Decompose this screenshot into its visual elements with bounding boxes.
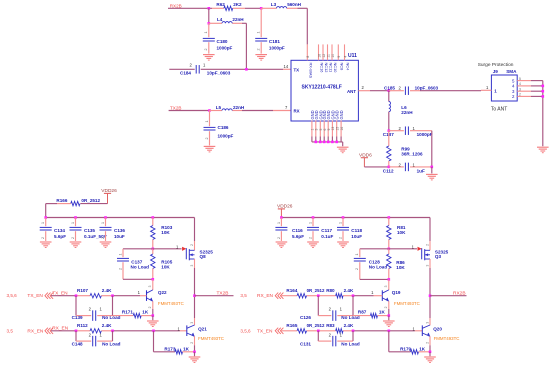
svg-text:TX: TX bbox=[294, 67, 300, 72]
svg-text:2: 2 bbox=[148, 306, 152, 308]
svg-text:3: 3 bbox=[425, 322, 429, 324]
ground Q22 bbox=[147, 316, 159, 327]
wire C128 return bbox=[360, 278, 389, 280]
svg-text:1K: 1K bbox=[419, 346, 426, 351]
node TX line junction bbox=[245, 68, 248, 71]
svg-text:C118: C118 bbox=[351, 228, 362, 233]
svg-text:2.4K: 2.4K bbox=[344, 323, 354, 328]
J9 pin 1 bbox=[481, 85, 497, 93]
wire to R173 bbox=[154, 331, 176, 352]
resistor R107 2.4K bbox=[77, 288, 112, 298]
svg-text:TX_EN: TX_EN bbox=[257, 328, 273, 334]
node RX_EN junction b right bbox=[352, 294, 355, 297]
svg-text:1: 1 bbox=[41, 222, 45, 224]
wire Q19 collector bbox=[384, 279, 389, 290]
svg-text:15: 15 bbox=[336, 127, 340, 131]
svg-text:No Load: No Load bbox=[102, 341, 121, 346]
node RX2B junction bbox=[208, 7, 211, 10]
ground U11 bus bbox=[337, 142, 349, 153]
pin 14 label bbox=[284, 64, 289, 69]
capacitor C112 1uF bbox=[383, 162, 432, 173]
svg-text:Q22: Q22 bbox=[158, 290, 167, 295]
svg-text:1: 1 bbox=[308, 222, 312, 224]
resistor R83 2.4K bbox=[326, 323, 354, 333]
svg-text:2: 2 bbox=[190, 62, 193, 67]
svg-text:2: 2 bbox=[308, 237, 312, 239]
net label RX2B out bbox=[453, 291, 466, 297]
wire J9 shield vertical bbox=[542, 81, 544, 147]
svg-text:4: 4 bbox=[512, 84, 515, 89]
svg-text:22nH: 22nH bbox=[232, 17, 244, 22]
inductor L4 22nH bbox=[209, 17, 245, 23]
svg-text:FMMT493TC: FMMT493TC bbox=[434, 336, 460, 341]
svg-text:1: 1 bbox=[338, 222, 342, 224]
node Q21 emitter junction bbox=[193, 351, 196, 354]
svg-text:2: 2 bbox=[384, 306, 388, 308]
svg-text:1: 1 bbox=[486, 85, 489, 90]
svg-text:C134: C134 bbox=[54, 228, 65, 233]
svg-text:GND: GND bbox=[339, 110, 344, 119]
svg-text:16: 16 bbox=[317, 54, 321, 58]
power VDD26 right bbox=[277, 204, 293, 218]
svg-text:L5: L5 bbox=[216, 105, 222, 110]
pin 7 label bbox=[285, 105, 288, 110]
svg-text:2: 2 bbox=[519, 93, 521, 97]
transistor Q19 FMMT493TC bbox=[382, 290, 419, 306]
svg-text:SMA: SMA bbox=[506, 69, 517, 74]
ground Q19 bbox=[383, 316, 395, 327]
svg-text:FMMT493TC: FMMT493TC bbox=[198, 336, 224, 341]
node TX_EN junction a bbox=[75, 294, 78, 297]
svg-text:3: 3 bbox=[148, 285, 152, 287]
U11 ANT pin stub bbox=[358, 85, 370, 91]
svg-text:0R_2512: 0R_2512 bbox=[307, 288, 325, 293]
svg-text:C181: C181 bbox=[269, 39, 280, 44]
svg-text:R165: R165 bbox=[286, 323, 297, 328]
svg-text:R166: R166 bbox=[56, 198, 67, 203]
capacitor C116 5.6pF bbox=[275, 218, 304, 242]
svg-text:NC4: NC4 bbox=[346, 63, 351, 72]
svg-text:C116: C116 bbox=[292, 228, 303, 233]
svg-text:2: 2 bbox=[257, 49, 261, 51]
svg-text:C117: C117 bbox=[321, 228, 332, 233]
text Surge Protection bbox=[478, 62, 514, 68]
ground Q21 bbox=[189, 352, 201, 363]
svg-text:ANT: ANT bbox=[347, 89, 356, 94]
node L5 junction bbox=[208, 109, 211, 112]
capacitor C180 1000pF bbox=[203, 23, 233, 53]
svg-text:1: 1 bbox=[257, 32, 261, 34]
svg-text:3,5,6: 3,5,6 bbox=[240, 328, 251, 333]
capacitor C131 No Load bbox=[300, 331, 360, 347]
svg-text:2: 2 bbox=[425, 342, 429, 344]
wire L5 to RX pin bbox=[242, 110, 291, 112]
wire R166 to bus bbox=[45, 204, 47, 218]
wire Q20 emitter bbox=[425, 336, 430, 352]
svg-text:7: 7 bbox=[285, 105, 288, 110]
node R103 gate junction bbox=[152, 248, 155, 251]
wire Q22 collector bbox=[148, 279, 153, 290]
svg-text:1K: 1K bbox=[183, 346, 190, 351]
ground C116 bbox=[276, 242, 288, 248]
svg-text:16: 16 bbox=[340, 127, 344, 131]
node ANT junction bbox=[388, 89, 391, 92]
pin 1 Q22 base bbox=[138, 290, 141, 295]
resistor R81 10K bbox=[387, 218, 407, 249]
node C181 junction bbox=[260, 7, 263, 10]
inductor L6 22nH bbox=[389, 91, 413, 131]
connector J9 SMA box bbox=[491, 69, 517, 101]
svg-text:NC8: NC8 bbox=[339, 63, 344, 71]
U11 pin RX bbox=[294, 109, 300, 114]
net label TX2B top bbox=[170, 105, 182, 110]
wire bus to Q3 drain bbox=[425, 218, 430, 251]
svg-text:C180: C180 bbox=[217, 39, 228, 44]
pin 1 Q20 base bbox=[413, 327, 416, 332]
transistor Q22 FMMT493TC bbox=[147, 290, 184, 306]
power VDD6 bbox=[359, 153, 372, 167]
svg-text:RX: RX bbox=[294, 109, 300, 114]
pin 1 Q21 base bbox=[178, 327, 181, 332]
svg-text:3: 3 bbox=[315, 129, 319, 131]
node L4 junction bbox=[208, 22, 211, 25]
svg-text:Q21: Q21 bbox=[198, 327, 207, 332]
capacitor C135 0.1uF_50V bbox=[70, 218, 108, 242]
capacitor C185 10pF_0603 bbox=[384, 85, 439, 95]
svg-text:TX2B: TX2B bbox=[217, 291, 229, 297]
svg-text:10K: 10K bbox=[161, 264, 170, 269]
wire TX_EN row right bbox=[281, 330, 422, 332]
wire Q3 source bbox=[425, 259, 430, 296]
svg-text:1: 1 bbox=[355, 254, 359, 256]
capacitor C117 0.1uF bbox=[307, 218, 333, 242]
svg-text:3: 3 bbox=[384, 285, 388, 287]
capacitor C181 1000pF bbox=[255, 8, 285, 53]
svg-text:C184: C184 bbox=[180, 70, 191, 75]
svg-text:10uF: 10uF bbox=[114, 234, 125, 239]
U11 pin TX bbox=[294, 67, 300, 72]
svg-text:11: 11 bbox=[326, 54, 330, 58]
ground C112 bbox=[426, 167, 438, 180]
svg-text:R164: R164 bbox=[286, 288, 297, 293]
node bus junctions left bbox=[44, 216, 154, 219]
svg-text:1000pF: 1000pF bbox=[269, 46, 285, 51]
wire Q8 source bbox=[190, 259, 195, 296]
node Q22 emitter junction bbox=[152, 314, 155, 317]
net label RX_EN bbox=[52, 325, 69, 331]
svg-text:5.6pF: 5.6pF bbox=[292, 234, 304, 239]
svg-text:1uF: 1uF bbox=[417, 168, 425, 173]
svg-text:NC10: NC10 bbox=[333, 63, 338, 74]
ground C180 bbox=[203, 55, 215, 61]
wire Q22 emitter bbox=[148, 301, 153, 315]
svg-text:NC12: NC12 bbox=[324, 63, 329, 73]
ground Q20 bbox=[424, 352, 436, 363]
ground C118 bbox=[337, 242, 349, 248]
wire Q21 collector bbox=[190, 296, 195, 326]
resistor R103 10K bbox=[151, 218, 173, 249]
svg-text:0R_2512: 0R_2512 bbox=[307, 323, 325, 328]
svg-text:36R_1206: 36R_1206 bbox=[401, 151, 423, 156]
svg-text:5: 5 bbox=[512, 78, 515, 83]
resistor R165 0R_2512 bbox=[286, 323, 325, 333]
svg-text:C136: C136 bbox=[114, 228, 125, 233]
svg-text:560nH: 560nH bbox=[287, 2, 301, 7]
svg-text:L4: L4 bbox=[217, 17, 223, 22]
text To ANT bbox=[491, 107, 507, 113]
svg-text:4: 4 bbox=[519, 82, 521, 86]
node Q20 emitter junction bbox=[429, 351, 432, 354]
node RX_EN junction a bbox=[75, 330, 78, 333]
svg-text:2.4K: 2.4K bbox=[102, 288, 112, 293]
wire TX2B out bbox=[195, 295, 234, 297]
wire C185 to J9 bbox=[420, 90, 481, 92]
svg-text:1: 1 bbox=[277, 222, 281, 224]
svg-text:1000pF: 1000pF bbox=[217, 46, 233, 51]
wire to R179 bbox=[389, 331, 411, 352]
svg-text:U11: U11 bbox=[348, 53, 357, 59]
svg-text:1: 1 bbox=[203, 62, 206, 67]
svg-text:14: 14 bbox=[284, 64, 289, 69]
resistor R171 1K bbox=[113, 310, 153, 318]
J9 right pins bbox=[512, 77, 543, 99]
transistor Q21 FMMT493TC bbox=[187, 325, 224, 341]
power VDD26 left bbox=[101, 188, 117, 203]
svg-text:10: 10 bbox=[331, 54, 335, 58]
wire U11 ground bus bbox=[312, 141, 343, 143]
resistor R86 10K bbox=[387, 249, 406, 280]
wire RX2B out bbox=[430, 295, 467, 297]
svg-text:TX2B: TX2B bbox=[170, 105, 182, 110]
svg-text:12: 12 bbox=[322, 54, 326, 58]
svg-text:R171: R171 bbox=[122, 310, 133, 315]
svg-text:2: 2 bbox=[512, 94, 515, 99]
svg-text:R107: R107 bbox=[77, 288, 88, 293]
svg-text:2: 2 bbox=[425, 244, 429, 246]
svg-text:R112: R112 bbox=[77, 323, 88, 328]
node RX_EN junction a right bbox=[317, 294, 320, 297]
svg-text:1000pF: 1000pF bbox=[417, 132, 433, 137]
capacitor C134 5.6pF bbox=[40, 218, 66, 242]
node R105 bottom junction bbox=[152, 278, 155, 281]
svg-text:R179: R179 bbox=[400, 346, 411, 351]
svg-text:L3: L3 bbox=[271, 2, 277, 7]
svg-text:4: 4 bbox=[343, 56, 347, 58]
svg-text:3: 3 bbox=[519, 87, 521, 91]
svg-text:R62: R62 bbox=[216, 2, 225, 7]
svg-text:1: 1 bbox=[494, 88, 497, 93]
svg-text:C135: C135 bbox=[84, 228, 95, 233]
IC U11 box bbox=[291, 53, 358, 121]
svg-text:1: 1 bbox=[100, 332, 103, 337]
svg-text:Q8: Q8 bbox=[200, 254, 207, 259]
svg-text:RX-BIAS: RX-BIAS bbox=[308, 63, 313, 79]
wire C137 return bbox=[123, 278, 153, 280]
port RX_EN left bbox=[7, 328, 54, 335]
svg-text:5.6pF: 5.6pF bbox=[54, 234, 66, 239]
wire C187 right drop bbox=[431, 131, 433, 167]
capacitor C187 1000pF bbox=[383, 126, 433, 137]
svg-text:0.1uF: 0.1uF bbox=[321, 234, 333, 239]
node TX_EN junction a right bbox=[317, 330, 320, 333]
resistor R112 2.4K bbox=[77, 323, 112, 333]
svg-text:Surge Protection: Surge Protection bbox=[478, 62, 514, 68]
svg-text:R87: R87 bbox=[358, 310, 367, 315]
ground C186 bbox=[204, 146, 216, 152]
svg-text:3,5,6: 3,5,6 bbox=[7, 293, 18, 298]
svg-text:3: 3 bbox=[190, 265, 194, 267]
ground C136 bbox=[100, 242, 112, 248]
ground C117 bbox=[307, 242, 319, 248]
svg-text:0R_2512: 0R_2512 bbox=[81, 198, 100, 203]
capacitor C126 No Load bbox=[300, 296, 360, 321]
svg-text:R83: R83 bbox=[326, 323, 335, 328]
svg-text:2: 2 bbox=[71, 237, 75, 239]
resistor R105 10K bbox=[151, 249, 173, 279]
svg-text:2: 2 bbox=[399, 85, 402, 90]
svg-text:J9: J9 bbox=[493, 69, 499, 74]
svg-text:C185: C185 bbox=[384, 85, 395, 90]
svg-text:1: 1 bbox=[340, 307, 343, 312]
svg-text:To ANT: To ANT bbox=[491, 107, 507, 113]
net label TX_EN bbox=[52, 290, 68, 296]
wire bus to Q8 drain bbox=[190, 218, 195, 251]
resistor R166 0R_2512 bbox=[46, 198, 108, 206]
transistor Q3 S2325 bbox=[418, 247, 449, 261]
svg-text:3: 3 bbox=[425, 265, 429, 267]
wire TX2B run bbox=[169, 110, 210, 112]
svg-text:Q3: Q3 bbox=[435, 254, 442, 259]
capacitor C137 No Load bbox=[117, 249, 153, 279]
U11 pin ANT bbox=[347, 89, 356, 94]
wire L3 to RX-BIAS bbox=[298, 8, 308, 44]
svg-text:3,5: 3,5 bbox=[240, 293, 247, 298]
svg-text:22nH: 22nH bbox=[401, 110, 413, 115]
wire C184 to TX pin bbox=[201, 68, 291, 70]
svg-text:1: 1 bbox=[371, 290, 374, 295]
capacitor C186 1000pF bbox=[204, 111, 234, 146]
svg-text:5: 5 bbox=[519, 77, 521, 81]
svg-text:RX2B: RX2B bbox=[453, 291, 466, 297]
svg-text:10pF_0603: 10pF_0603 bbox=[415, 85, 439, 90]
U11 top pin stubs bbox=[306, 44, 347, 60]
svg-text:3,5: 3,5 bbox=[7, 328, 14, 333]
wire VDD6 to R99 bbox=[364, 166, 388, 168]
node RX_EN junction c bbox=[152, 330, 155, 333]
svg-text:2: 2 bbox=[205, 138, 209, 140]
svg-text:C186: C186 bbox=[218, 125, 229, 130]
svg-text:RX_EN: RX_EN bbox=[257, 293, 274, 299]
svg-text:RX_EN: RX_EN bbox=[27, 328, 44, 334]
svg-text:2: 2 bbox=[355, 268, 359, 270]
ground C134 bbox=[40, 242, 52, 248]
node R81 gate junction bbox=[388, 248, 391, 251]
wire to L4 bbox=[208, 8, 210, 23]
node TX2B junction bbox=[193, 294, 196, 297]
node RX2B junction out bbox=[429, 294, 432, 297]
wire gate Q3 bbox=[389, 244, 417, 249]
wire RX_EN row right bbox=[281, 295, 382, 297]
svg-text:1000pF: 1000pF bbox=[218, 133, 234, 138]
capacitor C148 No Load bbox=[72, 331, 121, 347]
node TX_EN junction c right bbox=[388, 330, 391, 333]
node Q19 emitter junction bbox=[388, 314, 391, 317]
wire Q21 emitter bbox=[190, 336, 195, 352]
transistor Q8 S2325 bbox=[182, 247, 213, 261]
wire C184 left bbox=[169, 68, 194, 70]
node gnd bus junctions bbox=[315, 141, 339, 144]
svg-text:2: 2 bbox=[329, 307, 332, 312]
U11 bottom GND pin stubs bbox=[311, 121, 344, 142]
svg-text:10K: 10K bbox=[396, 265, 405, 270]
ground C181 bbox=[255, 55, 267, 61]
svg-text:SKY12210-478LF: SKY12210-478LF bbox=[302, 84, 342, 90]
svg-text:C148: C148 bbox=[72, 341, 83, 346]
capacitor C184 10pF_0603 bbox=[180, 62, 231, 75]
resistor R164 0R_2512 bbox=[286, 288, 325, 298]
svg-text:10pF_0603: 10pF_0603 bbox=[207, 70, 231, 75]
wire gate Q8 bbox=[153, 244, 182, 249]
svg-text:C131: C131 bbox=[300, 341, 311, 346]
transistor Q20 FMMT493TC bbox=[422, 325, 459, 341]
svg-text:1: 1 bbox=[100, 307, 103, 312]
svg-text:2: 2 bbox=[118, 268, 122, 270]
port TX_EN right bbox=[240, 328, 283, 335]
U11 top pin names bbox=[308, 63, 350, 79]
svg-text:TX_EN: TX_EN bbox=[27, 293, 43, 299]
wire ANT to C185 bbox=[370, 90, 389, 92]
svg-text:10K: 10K bbox=[161, 230, 170, 235]
svg-text:FMMT493TC: FMMT493TC bbox=[394, 301, 420, 306]
svg-text:No Load: No Load bbox=[131, 265, 150, 270]
svg-text:Q20: Q20 bbox=[433, 327, 442, 332]
node L6/C187 junction bbox=[388, 129, 391, 132]
svg-text:2: 2 bbox=[277, 237, 281, 239]
svg-text:2: 2 bbox=[101, 237, 105, 239]
svg-text:9: 9 bbox=[337, 56, 341, 58]
port TX_EN left bbox=[7, 293, 54, 300]
wire TX_EN row bbox=[51, 295, 147, 297]
svg-text:2: 2 bbox=[190, 244, 194, 246]
node TX_EN junction b bbox=[111, 294, 114, 297]
node R99/C112 junction bbox=[388, 166, 391, 169]
svg-text:1: 1 bbox=[205, 121, 209, 123]
node RX_EN junction b bbox=[111, 330, 114, 333]
U11 bottom GND pin names bbox=[310, 110, 344, 119]
svg-text:C139: C139 bbox=[72, 315, 83, 320]
svg-text:2: 2 bbox=[338, 237, 342, 239]
svg-text:C112: C112 bbox=[383, 168, 394, 173]
svg-text:2: 2 bbox=[89, 307, 92, 312]
capacitor C128 No Load bbox=[354, 249, 389, 280]
svg-text:1: 1 bbox=[118, 254, 122, 256]
svg-text:3: 3 bbox=[190, 322, 194, 324]
pin 1 Q19 base bbox=[371, 290, 374, 295]
wire Q19 emitter bbox=[384, 301, 389, 315]
svg-text:1: 1 bbox=[138, 290, 141, 295]
svg-text:1K: 1K bbox=[142, 310, 149, 315]
net label TX2B out bbox=[217, 291, 229, 297]
ground C135 bbox=[70, 242, 82, 248]
inductor L3 560nH bbox=[261, 2, 301, 8]
svg-text:2: 2 bbox=[89, 332, 92, 337]
wire Q20 collector bbox=[425, 296, 430, 326]
resistor R99 36R_1206 bbox=[387, 131, 423, 167]
svg-text:2: 2 bbox=[329, 332, 332, 337]
node C112 right junction bbox=[431, 166, 434, 169]
svg-text:R80: R80 bbox=[326, 288, 335, 293]
svg-text:8: 8 bbox=[306, 56, 310, 58]
